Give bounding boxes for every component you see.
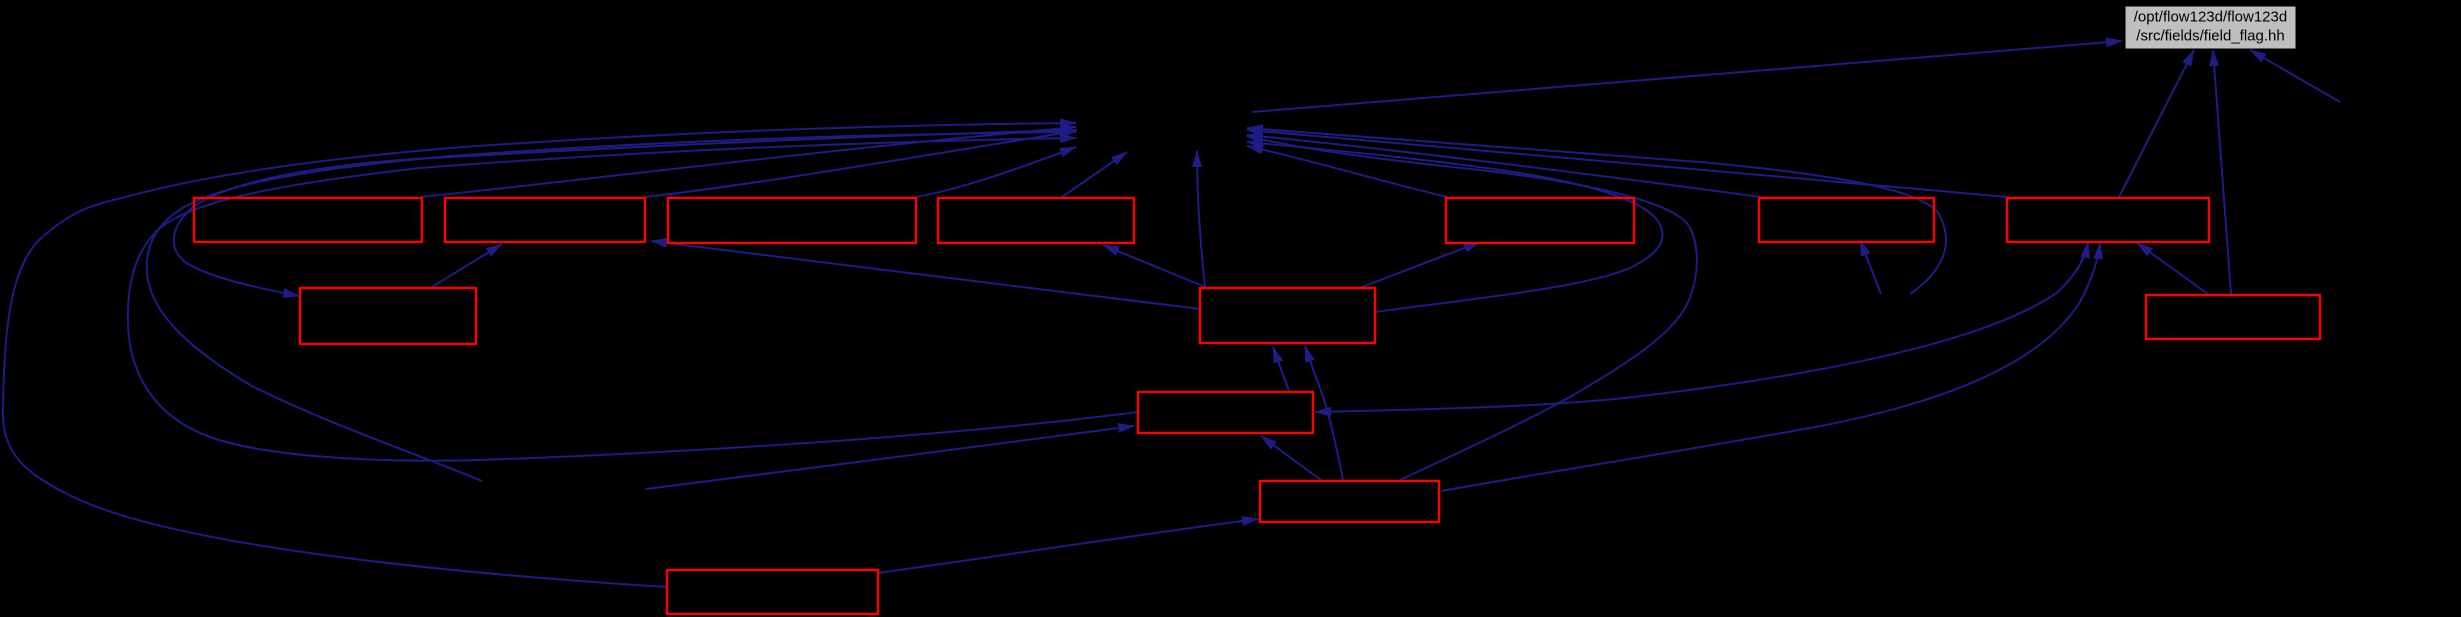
edge I4 to I1 arc around R6 <box>1247 128 1946 294</box>
svg-text:/src/fields/field_flag.hh: /src/fields/field_flag.hh <box>2136 28 2284 45</box>
edge R9 to R5 <box>1362 242 1480 287</box>
edge R13 to R12 <box>878 519 1258 573</box>
node R8 <box>300 288 476 344</box>
edge R3 to I1 <box>916 147 1076 197</box>
edge R12 to R11 <box>1261 436 1321 480</box>
edge R12 to I1 arc through gap <box>1247 136 1697 480</box>
node R9 <box>1200 288 1375 343</box>
edge R7 to I1 <box>1247 130 2007 197</box>
node R3 <box>668 198 916 243</box>
edge R1 to I1 <box>420 127 1076 197</box>
edge R9 to R4 <box>1103 245 1205 287</box>
node R10 <box>2146 295 2320 339</box>
edge R9 to I1 vertical <box>1197 151 1205 287</box>
edge R2 to I1 <box>645 131 1076 197</box>
edge R9 to R2 <box>651 241 1200 309</box>
edge I4 to R6 <box>1860 240 1881 294</box>
node R1 <box>194 198 422 242</box>
node R12 <box>1260 481 1439 522</box>
edge R9 to I1 arc around R5 <box>1247 142 1663 312</box>
node root gray box <box>2125 6 2296 49</box>
node R2 <box>445 198 645 242</box>
node R11 <box>1138 392 1313 433</box>
edge R13 to I1 big left loop <box>3 123 1076 587</box>
edge R6 to I1 <box>1247 135 1760 197</box>
edge R11 to I1 left loop <box>128 138 1138 461</box>
edge R5 to I1 <box>1247 146 1447 197</box>
edge R10 to root <box>2213 50 2231 294</box>
edge I1 to R8 left loop <box>174 130 1077 296</box>
node R6 <box>1759 198 1934 242</box>
edge I1 to root <box>1252 41 2122 112</box>
edge I2 to R11 <box>646 426 1134 489</box>
node R7 <box>2007 198 2209 242</box>
edge R8 to R2 <box>432 244 502 287</box>
edge R12 to R9 <box>1305 346 1343 480</box>
node R4 <box>938 198 1134 243</box>
edge I2 to I1 left loop <box>147 132 1076 481</box>
edge R10 to I1 <box>2137 243 2208 294</box>
edge R4 to I1 <box>1062 152 1127 197</box>
edge R11 to R9 <box>1273 347 1289 391</box>
edge R12 to R7 lower <box>1441 243 2100 491</box>
node R13 <box>667 570 878 614</box>
node R5 <box>1446 198 1634 243</box>
edge I3 to root <box>2250 50 2340 102</box>
edge corridor R11 and R7 double arrow <box>1315 242 2088 412</box>
edge R7 to root <box>2119 50 2194 197</box>
svg-text:/opt/flow123d/flow123d: /opt/flow123d/flow123d <box>2134 9 2287 26</box>
